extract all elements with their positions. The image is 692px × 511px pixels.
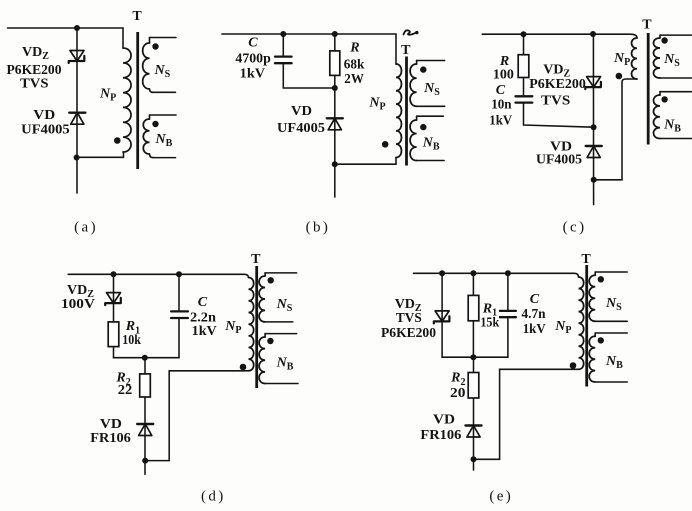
svg-text:UF4005: UF4005 [21,123,70,138]
svg-text:UF4005: UF4005 [277,121,325,136]
secondary winding Ns bottom lead (c) [660,77,692,79]
svg-text:68k: 68k [344,58,365,73]
svg-text:2W: 2W [344,72,364,87]
svg-text:(a): (a) [74,220,98,236]
diode VD UF4005 (c) [586,146,602,158]
bias winding NB coil (a) [149,115,151,119]
polarity dot of Np (b) [382,141,389,148]
node: top rail / snubber R branch (b) [332,31,338,37]
svg-text:TVS: TVS [20,77,49,92]
secondary winding Ns top lead (c) [660,34,692,36]
svg-text:100V: 100V [61,297,95,312]
node: clamp output junction (e) [470,354,476,360]
zener diode VDz 100V (d) [105,293,121,306]
secondary winding Ns top lead (d) [265,272,297,274]
secondary winding Ns coil (b) [416,61,418,65]
wire: bottom node to primary return (d) [145,371,248,461]
diode VD FR106 (d) [137,424,153,436]
wire: top rail to capacitor C (e) [507,273,509,311]
svg-text:C: C [248,36,258,51]
svg-text:(d): (d) [201,489,226,505]
svg-text:TVS: TVS [396,311,422,326]
svg-text:FR106: FR106 [90,431,131,446]
zener TVS diode VDz P6KE200 (e) [434,311,450,324]
circuit (b) top rail wire [222,34,396,64]
node: bottom junction (b) [332,161,338,167]
svg-text:VD: VD [100,417,122,432]
polarity dot of Np (c) [616,73,623,80]
polarity dot of NB (e) [598,337,604,343]
transformer core (e) [585,265,588,387]
svg-text:VD: VD [291,104,312,119]
circuit (a) top rail wire [8,28,124,48]
svg-text:4.7n: 4.7n [522,307,546,322]
secondary winding Ns coil (e) [594,272,596,275]
zener TVS diode VDz P6KE200 (c) [585,77,601,90]
secondary winding Ns bottom lead (b) [417,105,445,107]
wire: top rail to capacitor C (d) [178,274,180,311]
capacitor C 2.2n (d) [171,311,188,318]
wire: snubber branch vertical (b) [334,34,336,197]
node: top rail / snubber C branch (b) [280,31,286,37]
wire: bottom rail to primary (b) [335,158,396,165]
bias winding NB bottom lead (c) [660,138,692,140]
bias winding NB top lead (e) [595,332,627,334]
capacitor C 4700p (b) [275,57,292,64]
svg-text:VD: VD [433,413,455,428]
svg-text:22: 22 [118,383,133,398]
node: R-C junction (b) [332,85,338,91]
node: top rail / clamp branch (c) [590,31,596,37]
wire: damper branch vertical (d) [144,358,146,475]
wire: bottom node to primary return (c) [594,79,637,180]
polarity dot of NB (b) [420,124,426,130]
svg-text:(c): (c) [563,220,587,236]
circuit (c) top rail wire [482,34,637,38]
polarity dot of Np (d) [240,364,247,371]
svg-text:T: T [251,252,261,267]
resistor R1 10k (d) [108,322,119,347]
node: bottom junction (c) [591,177,597,183]
bias winding NB top lead (a) [150,114,177,116]
svg-text:10k: 10k [122,333,141,348]
svg-text:T: T [642,18,652,33]
bias winding NB bottom lead (b) [417,160,445,162]
polarity dot of Ns (e) [598,276,604,282]
transformer core (b) [405,57,408,166]
secondary winding Ns bottom lead (e) [595,320,627,322]
node: top rail / RC branch (c) [521,31,527,37]
secondary winding Ns top lead (e) [595,271,627,273]
polarity dot of Np (a) [114,137,121,144]
wire: capacitor to mid node (c) [524,103,594,128]
bias winding NB coil (d) [264,334,266,337]
wire: top rail to resistor R (c) [523,34,525,55]
wire: clamp branch vertical (c) [592,34,594,205]
bias winding NB coil (e) [594,333,596,336]
polarity dot of Ns (b) [420,66,426,72]
wire: bottom rail to primary (a) [77,152,124,157]
svg-text:T: T [401,43,411,58]
bias winding NB top lead (b) [417,115,444,117]
svg-text:1kV: 1kV [192,324,217,339]
bias winding NB bottom lead (e) [595,381,627,383]
node: VDz / RC junction (c) [591,124,597,130]
svg-text:4700p: 4700p [235,52,271,67]
transformer core (d) [255,266,258,388]
resistor R1 15k (e) [468,295,479,320]
wire: R1 branch vertical (e) [472,273,474,357]
wire: capacitor to bottom wire (d) [178,318,180,358]
node: bottom junction (e) [471,456,477,462]
svg-text:100: 100 [493,68,514,83]
svg-text:1kV: 1kV [489,114,512,129]
bias winding NB top lead (c) [660,91,692,93]
bias winding NB top lead (d) [265,333,297,335]
wire: damper branch vertical (e) [473,357,475,470]
svg-text:VD: VD [33,108,55,123]
capacitor C 4.7n (e) [500,311,516,317]
wire: capacitor to bottom wire (e) [507,317,509,357]
transformer T primary winding Np (b) [396,64,401,158]
node: top rail / R1 branch (e) [470,270,476,276]
wire: clamp branch vertical (d) [113,274,115,357]
secondary winding Ns bottom lead (a) [152,91,176,93]
wire: top rail to capacitor C (b) [282,34,284,57]
node: bottom junction (a) [74,155,80,161]
secondary winding Ns coil (d) [264,273,266,276]
polarity dot of NB (d) [267,338,273,344]
svg-text:P6KE200: P6KE200 [529,77,586,92]
wire: bottom node to primary return (e) [474,369,579,459]
resistor R2 20 (e) [468,373,479,399]
diode VD UF4005 (a) [69,113,85,125]
svg-text:UF4005: UF4005 [536,153,582,168]
svg-text:10n: 10n [491,98,512,113]
svg-text:C: C [198,295,208,310]
svg-text:TVS: TVS [541,94,571,109]
svg-text:(e): (e) [489,489,513,505]
diode VD FR106 (e) [466,426,482,438]
polarity dot of NB (c) [661,96,667,102]
svg-text:C: C [496,83,506,98]
circuit (e) top rail wire [414,273,579,277]
polarity dot of NB (a) [152,121,158,127]
transformer core (c) [647,33,650,145]
polarity dot of Np (e) [570,362,577,369]
polarity dot of Ns (c) [661,37,667,43]
svg-text:1kV: 1kV [240,66,265,81]
capacitor C 10n (c) [516,96,533,102]
polarity dot of Ns (a) [152,43,158,49]
resistor R2 22 (d) [140,374,151,397]
transformer T primary winding Np (a) [123,48,131,152]
node: junction of top rail and clamp branch (a) [74,25,80,31]
resistor R 100 (c) [518,55,529,78]
zener TVS diode VDz P6KE200 (a) [69,51,85,64]
node: bottom junction (d) [142,458,148,464]
transformer core (a) [136,32,139,169]
wire: resistor to capacitor (c) [523,78,525,97]
svg-text:20: 20 [450,386,465,401]
bias winding NB coil (b) [416,116,418,120]
wire: VDz branch vertical (e) [441,273,443,357]
bias winding NB coil (c) [659,92,661,95]
transformer T primary winding Np (e) [579,277,584,369]
secondary winding Ns bottom lead (d) [265,321,293,323]
diode VD UF4005 (b) [327,118,343,130]
svg-text:FR106: FR106 [420,428,461,443]
node: top rail / C branch (e) [505,270,511,276]
secondary winding Ns coil (a) [149,38,151,44]
svg-text:P6KE200: P6KE200 [381,326,436,341]
secondary winding Ns top lead (a) [150,37,177,39]
polarity dot of Ns (d) [268,277,274,283]
svg-text:15k: 15k [480,316,499,331]
circuit (d) top rail wire [68,274,248,277]
svg-text:T: T [132,9,142,24]
wire: capacitor to node below R (b) [283,63,335,88]
svg-text:(b): (b) [306,220,331,236]
stray scribble mark above transformer (b) [404,30,416,34]
svg-text:1kV: 1kV [523,322,546,337]
secondary winding Ns top lead (b) [417,60,445,62]
transformer T primary winding Np (c) [632,38,637,79]
svg-text:T: T [581,252,591,267]
secondary winding Ns coil (c) [659,35,661,38]
wire: snubber bottom rail (e) [442,356,508,358]
transformer T primary winding Np (d) [249,278,254,371]
node: top rail / snubber C branch (d) [176,271,182,277]
node: clamp output junction (d) [142,355,148,361]
node: top rail / clamp branch (d) [111,271,117,277]
bias winding NB bottom lead (a) [153,157,176,159]
bias winding NB bottom lead (d) [265,383,298,385]
svg-text:C: C [530,292,540,307]
svg-text:R: R [349,40,359,55]
resistor R 68k 2W (b) [330,51,340,76]
node: top rail / VDz branch (e) [439,270,445,276]
wire: clamp branch vertical (a) [76,28,78,193]
wire: snubber bottom rail (d) [114,357,180,359]
